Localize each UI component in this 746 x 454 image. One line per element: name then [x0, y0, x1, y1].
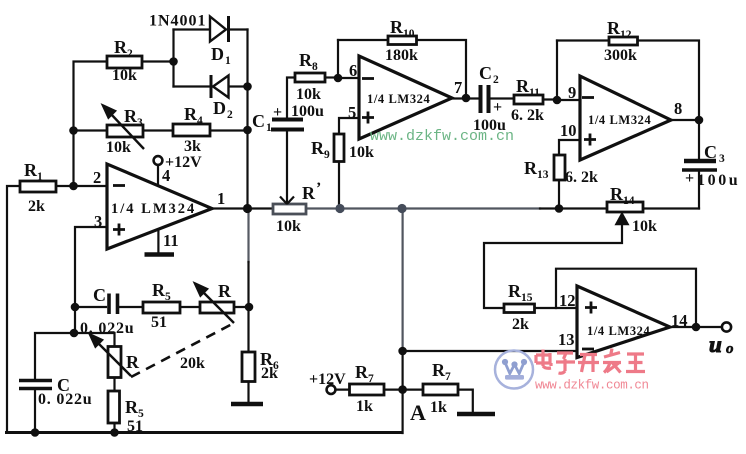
svg-text:2k: 2k: [261, 365, 278, 382]
svg-text:0. 022u: 0. 022u: [38, 391, 93, 408]
svg-text:C: C: [479, 63, 492, 83]
svg-text:A: A: [410, 400, 426, 425]
svg-text:1: 1: [217, 189, 225, 208]
svg-text:11: 11: [529, 87, 540, 99]
svg-text:+: +: [685, 170, 694, 187]
svg-text:14: 14: [671, 311, 688, 330]
svg-text:R: R: [299, 50, 313, 70]
svg-text:C: C: [704, 142, 717, 162]
svg-text:R: R: [607, 18, 621, 38]
svg-text:13: 13: [537, 169, 549, 181]
svg-text:1/4 LM324: 1/4 LM324: [588, 113, 652, 127]
svg-text:D: D: [213, 98, 226, 118]
svg-text:+12V: +12V: [309, 371, 346, 388]
svg-text:3k: 3k: [184, 138, 201, 155]
svg-text:7: 7: [454, 78, 462, 97]
svg-text:3: 3: [94, 212, 102, 231]
svg-text:4: 4: [162, 166, 170, 185]
svg-text:10k: 10k: [296, 86, 321, 103]
svg-text:10k: 10k: [112, 67, 137, 84]
svg-text:R: R: [184, 104, 198, 124]
svg-text:8: 8: [674, 99, 682, 118]
svg-text:14: 14: [623, 195, 635, 207]
svg-text:2k: 2k: [512, 316, 529, 333]
svg-text:1N4001: 1N4001: [149, 13, 207, 30]
svg-text:10: 10: [560, 121, 577, 140]
svg-text:u: u: [709, 332, 722, 357]
svg-text:C: C: [93, 285, 106, 305]
svg-text:R: R: [152, 280, 166, 300]
svg-text:1k: 1k: [356, 398, 373, 415]
svg-text:R: R: [610, 184, 624, 204]
svg-text:1k: 1k: [430, 399, 447, 416]
svg-text:2: 2: [227, 109, 233, 121]
svg-text:R: R: [126, 352, 140, 372]
svg-text:10: 10: [403, 28, 415, 40]
svg-text:2: 2: [93, 168, 101, 187]
svg-text:1/4 LM324: 1/4 LM324: [367, 92, 431, 106]
svg-text:51: 51: [127, 418, 143, 435]
svg-text:1/4 LM324: 1/4 LM324: [111, 201, 196, 217]
svg-text:+: +: [273, 104, 282, 121]
svg-text:ʼ: ʼ: [316, 180, 321, 197]
svg-text:R: R: [390, 17, 404, 37]
svg-text:+: +: [493, 99, 502, 116]
svg-text:R: R: [125, 397, 139, 417]
svg-text:100u: 100u: [291, 103, 324, 120]
svg-text:9: 9: [568, 83, 576, 102]
svg-text:5: 5: [165, 291, 171, 303]
svg-text:7: 7: [445, 371, 451, 383]
svg-text:300k: 300k: [604, 47, 637, 64]
svg-text:5: 5: [348, 103, 356, 122]
svg-text:1: 1: [266, 122, 272, 134]
svg-text:C: C: [252, 111, 265, 131]
svg-text:R: R: [508, 281, 522, 301]
svg-text:10k: 10k: [632, 218, 657, 235]
svg-text:R: R: [432, 360, 446, 380]
svg-text:10k: 10k: [349, 144, 374, 161]
svg-text:9: 9: [324, 149, 330, 161]
svg-text:R: R: [218, 281, 232, 301]
svg-text:1: 1: [225, 55, 231, 67]
svg-text:8: 8: [312, 61, 318, 73]
svg-text:3: 3: [719, 153, 725, 165]
svg-text:www.dzkfw.com.cn: www.dzkfw.com.cn: [535, 379, 649, 393]
svg-text:R: R: [516, 76, 530, 96]
svg-text:2: 2: [127, 48, 133, 60]
svg-text:R: R: [124, 106, 138, 126]
svg-text:1/4 LM324: 1/4 LM324: [587, 324, 651, 338]
svg-text:6. 2k: 6. 2k: [565, 169, 598, 186]
svg-text:R: R: [302, 183, 316, 203]
svg-text:1: 1: [37, 171, 43, 183]
svg-text:R: R: [355, 362, 369, 382]
svg-text:2: 2: [493, 74, 499, 86]
svg-text:180k: 180k: [385, 47, 418, 64]
svg-text:12: 12: [559, 291, 576, 310]
svg-text:+12V: +12V: [165, 154, 202, 171]
svg-text:20k: 20k: [180, 355, 205, 372]
svg-text:o: o: [726, 341, 734, 357]
svg-text:10k: 10k: [276, 218, 301, 235]
svg-text:www.dzkfw.com.cn: www.dzkfw.com.cn: [370, 128, 514, 145]
svg-text:R: R: [524, 158, 538, 178]
svg-text:15: 15: [521, 292, 533, 304]
svg-text:4: 4: [197, 115, 203, 127]
svg-text:12: 12: [620, 29, 632, 41]
svg-text:R: R: [114, 37, 128, 57]
svg-text:R: R: [24, 160, 38, 180]
svg-text:2k: 2k: [28, 198, 45, 215]
svg-text:11: 11: [163, 231, 179, 250]
svg-text:6. 2k: 6. 2k: [511, 107, 544, 124]
svg-text:6: 6: [349, 61, 357, 80]
svg-text:13: 13: [558, 330, 575, 349]
svg-text:R: R: [311, 138, 325, 158]
svg-text:51: 51: [151, 314, 167, 331]
svg-text:7: 7: [368, 373, 374, 385]
svg-text:D: D: [211, 44, 224, 64]
svg-text:0. 022u: 0. 022u: [80, 320, 135, 337]
svg-text:3: 3: [137, 117, 143, 129]
svg-text:10k: 10k: [106, 139, 131, 156]
svg-text:100u: 100u: [697, 172, 740, 189]
